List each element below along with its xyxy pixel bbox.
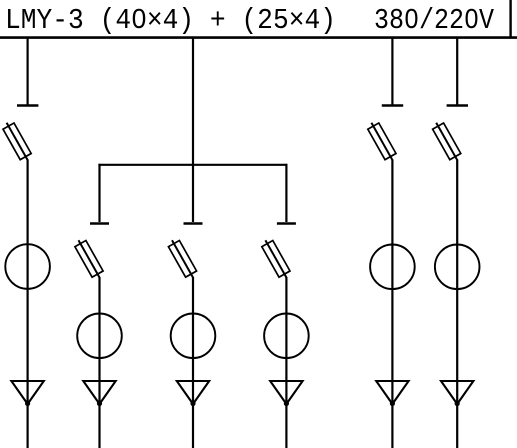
meter circle feeder1 (5, 244, 50, 289)
junction dot feeder1 (25, 401, 30, 406)
svg-text:LMY-3 (40×4) + (25×4): LMY-3 (40×4) + (25×4) (5, 4, 336, 37)
wire feeder4 vertical (285, 277, 287, 448)
meter circle feeder6 (435, 244, 480, 289)
wire feeder5 drop from bus (391, 38, 393, 105)
load arrow feeder2 (83, 381, 115, 404)
contact T-bar feeder2 (90, 222, 109, 225)
fuse-switch FU4 body (262, 241, 290, 278)
fuse-switch FU3 body (168, 241, 196, 278)
load arrow feeder3 (177, 381, 209, 404)
junction dot feeder3 (190, 401, 195, 406)
busbar LMY-3 main horizontal bus (0, 36, 517, 39)
fuse-switch FU2 body (75, 241, 103, 278)
svg-text:380/220V: 380/220V (374, 4, 495, 37)
meter circle feeder5 (370, 244, 415, 289)
fuse-switch FU2 blade (79, 240, 100, 277)
contact T-bar feeder3 (184, 222, 203, 225)
junction dot feeder6 (455, 401, 460, 406)
wire group header line (98, 164, 287, 166)
meter circle feeder3 (171, 314, 216, 359)
load arrow feeder6 (441, 381, 473, 404)
load arrow feeder4 (270, 381, 302, 404)
wire feeder2 vertical (98, 277, 100, 448)
junction dot feeder2 (97, 401, 102, 406)
wire feeder2 sub-drop (98, 164, 100, 222)
fuse-switch FU3 blade (172, 240, 193, 277)
wire group riser from bus (192, 38, 194, 222)
contact T-bar feeder5 (382, 104, 403, 107)
label bus rating text (5, 4, 495, 37)
fuse-switch FU5 body (368, 123, 396, 160)
wire feeder1 drop from bus (27, 38, 29, 105)
contact T-bar feeder6 (447, 104, 468, 107)
title box right border (509, 0, 511, 39)
contact T-bar feeder1 (17, 104, 38, 107)
fuse-switch FU1 blade (7, 123, 28, 160)
meter circle feeder2 (77, 314, 122, 359)
wire feeder4 sub-drop (285, 164, 287, 222)
junction dot feeder5 (390, 401, 395, 406)
load arrow feeder1 (11, 381, 43, 404)
contact T-bar feeder4 (277, 222, 296, 225)
wire feeder5 vertical (391, 160, 393, 448)
junction dot feeder4 (284, 401, 289, 406)
fuse-switch FU6 body (433, 123, 461, 160)
wire feeder6 vertical (456, 160, 458, 448)
wire feeder6 drop from bus (456, 38, 458, 105)
fuse-switch FU5 blade (371, 123, 392, 160)
fuse-switch FU1 body (3, 123, 31, 160)
fuse-switch FU4 blade (265, 240, 286, 277)
meter circle feeder4 (264, 314, 309, 359)
wire feeder3 vertical (192, 277, 194, 448)
wire feeder1 vertical (27, 160, 29, 448)
fuse-switch FU6 blade (436, 123, 457, 160)
load arrow feeder5 (376, 381, 408, 404)
